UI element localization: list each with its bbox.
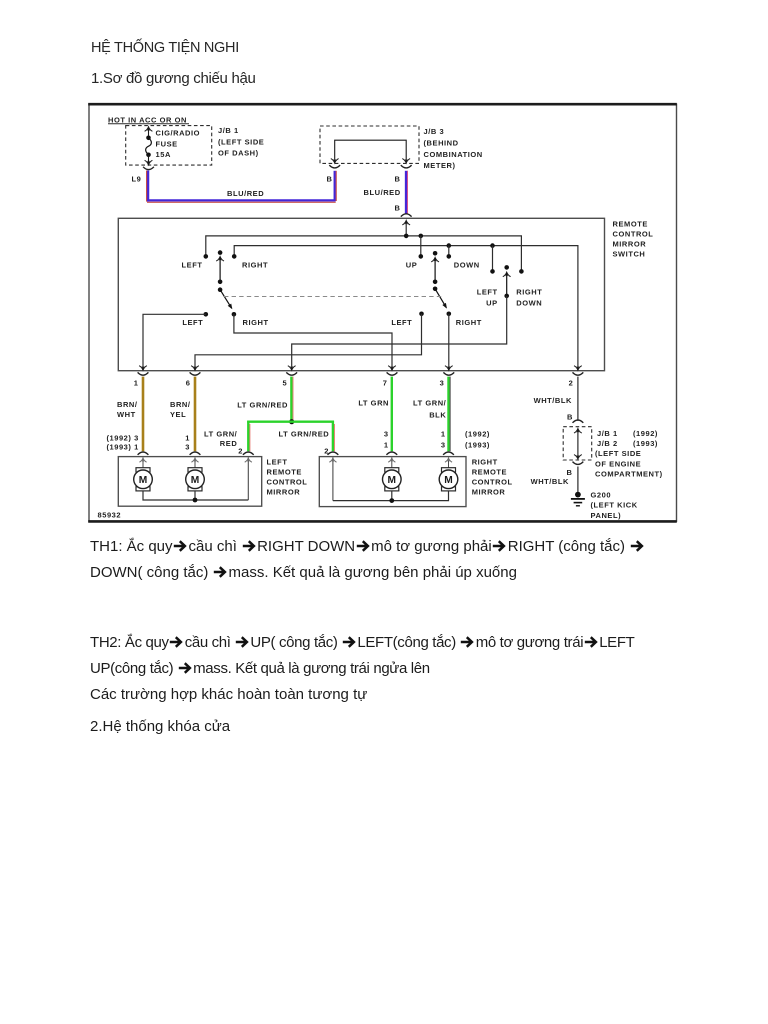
label J/B 1 (1992) / J/B 2 (1993) xyxy=(595,429,663,479)
switch S2 lower contacts xyxy=(419,312,451,317)
svg-text:J/B 2: J/B 2 xyxy=(597,439,618,448)
switch S1 lower deck contacts xyxy=(204,312,237,317)
label LT GRN/BLK xyxy=(413,398,447,419)
node LEFT-UP drop on bus 2 xyxy=(490,243,495,248)
wire B entry into switch xyxy=(402,220,410,236)
svg-text:LT GRN/: LT GRN/ xyxy=(204,430,238,439)
wire from S1 lower RIGHT to pin 7 xyxy=(234,314,392,370)
svg-text:MIRROR: MIRROR xyxy=(613,240,647,249)
label BRN/YEL xyxy=(170,400,191,419)
svg-text:PANEL): PANEL) xyxy=(591,511,622,520)
svg-text:LT GRN/: LT GRN/ xyxy=(413,398,447,407)
wire LT GRN pin7 to right mirror xyxy=(391,377,393,452)
title: HE THONG TIEN NGHI xyxy=(91,40,239,56)
wire WHT/BLK pin2 to J/B xyxy=(577,377,579,421)
svg-text:6: 6 xyxy=(186,379,191,388)
label J/B 3 (BEHIND COMBINATION METER) xyxy=(424,127,483,170)
connector arcs right mirror xyxy=(328,452,454,455)
svg-text:COMBINATION: COMBINATION xyxy=(424,150,483,159)
wires under motors to common bus xyxy=(143,491,248,500)
svg-text:5: 5 xyxy=(282,379,287,388)
svg-text:YEL: YEL xyxy=(170,410,186,419)
svg-text:DOWN: DOWN xyxy=(454,260,480,269)
svg-text:LEFT: LEFT xyxy=(182,260,203,269)
svg-text:J/B 3: J/B 3 xyxy=(424,127,445,136)
node junction LT GRN/RED xyxy=(289,419,294,424)
paragraph TH1 xyxy=(90,534,760,586)
svg-text:7: 7 xyxy=(383,379,388,388)
label 3 / 1 xyxy=(384,430,389,450)
svg-text:(1993): (1993) xyxy=(633,439,658,448)
svg-text:85932: 85932 xyxy=(98,511,122,520)
connector B into J/B engine xyxy=(573,420,584,423)
ground G200 xyxy=(571,492,585,506)
junction block J/B 3 dashed box xyxy=(320,126,419,163)
svg-text:RED: RED xyxy=(220,439,238,448)
svg-text:J/B 1: J/B 1 xyxy=(218,126,239,135)
svg-text:LT GRN/RED: LT GRN/RED xyxy=(279,430,330,439)
switch S3 left-up / right-down xyxy=(490,265,524,298)
wire from S2 lower LEFT to pin 6 xyxy=(195,314,422,370)
wire LEFT-UP drop xyxy=(492,246,494,271)
pin 2 connector xyxy=(573,366,584,376)
svg-text:WHT/BLK: WHT/BLK xyxy=(534,396,572,405)
right remote control mirror box xyxy=(319,457,466,507)
svg-text:(1992): (1992) xyxy=(633,429,658,438)
svg-text:LEFT: LEFT xyxy=(391,318,412,327)
wire LT GRN/RED junction to both mirrors xyxy=(247,421,334,452)
label 1 / 3 xyxy=(441,430,446,450)
node DOWN drop on bus 2 xyxy=(447,243,452,248)
svg-text:WHT: WHT xyxy=(117,410,136,419)
junction block J/B 1 / J/B 2 dashed box (engine compartment) xyxy=(563,427,592,460)
connector B at switch top xyxy=(401,214,412,217)
wire LT GRN/RED pin5 down to junction xyxy=(291,377,293,422)
svg-text:BLK: BLK xyxy=(429,410,446,419)
wire BLU/RED from J/B3 to switch B xyxy=(406,171,408,214)
svg-text:3: 3 xyxy=(185,443,190,452)
fuse CIG/RADIO FUSE 15A xyxy=(145,127,153,165)
svg-text:REMOTE: REMOTE xyxy=(613,220,648,229)
svg-text:(BEHIND: (BEHIND xyxy=(424,138,459,147)
svg-text:REMOTE: REMOTE xyxy=(267,467,302,476)
wire LT GRN/BLK pin3 to right mirror xyxy=(449,377,451,452)
motor M right mirror 1 xyxy=(383,468,402,491)
left remote control mirror box xyxy=(118,457,261,507)
bus wire 1 (top) xyxy=(206,236,522,271)
svg-text:1: 1 xyxy=(134,379,139,388)
label LEFT REMOTE CONTROL MIRROR xyxy=(267,457,308,496)
svg-text:B: B xyxy=(395,174,401,183)
wire DOWN drop xyxy=(448,246,450,256)
svg-text:(LEFT SIDE: (LEFT SIDE xyxy=(595,449,641,458)
svg-text:REMOTE: REMOTE xyxy=(472,468,507,477)
wire WHT/BLK to ground xyxy=(577,467,579,493)
svg-text:RIGHT: RIGHT xyxy=(243,318,269,327)
svg-text:15A: 15A xyxy=(156,150,171,159)
motor M left mirror 2 xyxy=(186,468,205,491)
switch S1 left/right (upper deck) xyxy=(204,250,237,310)
svg-text:DOWN: DOWN xyxy=(516,298,542,307)
pin 5 connector xyxy=(286,366,297,376)
subtitle: 1.So do guong chieu hau xyxy=(91,70,256,87)
node bus left mirror xyxy=(193,498,198,503)
wires under motors to common bus xyxy=(333,491,449,501)
remote control mirror switch box xyxy=(118,218,604,370)
motor M left mirror 1 xyxy=(134,468,153,491)
svg-text:3: 3 xyxy=(440,379,445,388)
paragraph TH2 xyxy=(90,630,768,682)
arrows inside right mirror box xyxy=(329,458,452,501)
svg-text:BRN/: BRN/ xyxy=(117,400,138,409)
J/B 3 internal bus bracket xyxy=(331,140,410,163)
svg-text:RIGHT: RIGHT xyxy=(456,318,482,327)
svg-text:(LEFT KICK: (LEFT KICK xyxy=(591,501,638,510)
svg-text:2: 2 xyxy=(569,379,574,388)
svg-text:WHT/BLK: WHT/BLK xyxy=(531,477,569,486)
svg-text:OF DASH): OF DASH) xyxy=(218,149,259,158)
svg-text:CONTROL: CONTROL xyxy=(267,477,308,486)
svg-text:METER): METER) xyxy=(424,161,456,170)
wire from S1 lower LEFT to pin 1 xyxy=(143,314,206,370)
svg-text:B: B xyxy=(567,413,573,422)
svg-text:1: 1 xyxy=(441,430,446,439)
svg-text:J/B 1: J/B 1 xyxy=(597,429,618,438)
wire from S2 lower RIGHT to pin 3 xyxy=(448,314,450,370)
svg-text:2: 2 xyxy=(238,446,243,455)
svg-text:L9: L9 xyxy=(132,174,142,183)
label (1992) 3 / (1993) 1 xyxy=(106,434,138,452)
svg-text:(1992): (1992) xyxy=(465,430,490,439)
wire BLU/RED from fuse L9 to J/B3 xyxy=(147,171,337,203)
svg-text:LEFT: LEFT xyxy=(477,287,498,296)
fuse value label xyxy=(156,128,201,159)
label J/B 1 (LEFT SIDE OF DASH) xyxy=(218,126,264,158)
label LEFT UP xyxy=(477,287,498,307)
svg-text:BRN/: BRN/ xyxy=(170,400,191,409)
label G200 (LEFT KICK PANEL) xyxy=(591,490,638,519)
J/B internal wire with arrows xyxy=(574,429,582,460)
svg-text:UP: UP xyxy=(486,298,498,307)
svg-text:B: B xyxy=(395,204,401,213)
wire BRN/YEL pin6 to left mirror xyxy=(194,377,197,452)
motor M right mirror 2 xyxy=(439,468,458,491)
connector B at J/B3 left xyxy=(329,165,340,168)
svg-text:RIGHT: RIGHT xyxy=(516,287,542,296)
connector B below J/B xyxy=(573,462,584,465)
node UP drop on bus 1 xyxy=(419,234,424,239)
junction block J/B 1 dashed box (fuse) xyxy=(126,126,212,166)
pin 7 connector xyxy=(387,366,398,376)
svg-text:MIRROR: MIRROR xyxy=(267,487,301,496)
paragraph Cac truong hop xyxy=(90,682,367,707)
wire BRN/WHT pin1 to left mirror xyxy=(142,377,145,452)
connector L9 xyxy=(143,167,154,170)
svg-text:SWITCH: SWITCH xyxy=(613,250,646,259)
svg-text:1: 1 xyxy=(384,441,389,450)
svg-text:LEFT: LEFT xyxy=(267,457,288,466)
svg-text:(1993) 1: (1993) 1 xyxy=(106,443,138,452)
svg-text:CONTROL: CONTROL xyxy=(613,230,654,239)
pin 3 connector xyxy=(443,366,454,376)
label RIGHT REMOTE CONTROL MIRROR xyxy=(472,458,513,497)
wire UP drop xyxy=(420,236,422,256)
svg-text:CONTROL: CONTROL xyxy=(472,478,513,487)
svg-text:(1993): (1993) xyxy=(465,441,490,450)
svg-text:MIRROR: MIRROR xyxy=(472,488,506,497)
svg-text:3: 3 xyxy=(384,430,389,439)
svg-text:G200: G200 xyxy=(591,490,612,499)
svg-text:LT GRN: LT GRN xyxy=(358,398,389,407)
svg-text:(LEFT SIDE: (LEFT SIDE xyxy=(218,137,264,146)
diagram outer border frame xyxy=(88,104,677,521)
svg-text:1: 1 xyxy=(185,434,190,443)
svg-text:HOT IN ACC OR ON: HOT IN ACC OR ON xyxy=(108,115,187,124)
svg-text:COMPARTMENT): COMPARTMENT) xyxy=(595,470,663,479)
node bus right mirror xyxy=(389,498,394,503)
label HOT IN ACC OR ON xyxy=(108,115,189,124)
switch S2 up/down xyxy=(419,251,452,310)
pin 6 connector xyxy=(190,366,201,376)
svg-text:3: 3 xyxy=(441,441,446,450)
svg-text:(1992) 3: (1992) 3 xyxy=(106,434,138,443)
svg-text:RIGHT: RIGHT xyxy=(242,260,268,269)
label (1992) / (1993) xyxy=(465,430,490,450)
paragraph 2.He thong khoa cua xyxy=(90,714,230,739)
mechanical gang dashed link xyxy=(224,296,443,298)
svg-text:RIGHT: RIGHT xyxy=(472,458,498,467)
svg-text:LEFT: LEFT xyxy=(182,318,203,327)
svg-text:LT GRN/RED: LT GRN/RED xyxy=(237,400,288,409)
svg-text:CIG/RADIO: CIG/RADIO xyxy=(156,128,201,137)
connector arcs left mirror xyxy=(138,452,254,455)
svg-text:UP: UP xyxy=(406,260,418,269)
pin 1 connector xyxy=(138,366,149,376)
svg-text:FUSE: FUSE xyxy=(156,139,178,148)
connector B at J/B3 right xyxy=(401,165,412,168)
label RIGHT DOWN xyxy=(516,287,542,307)
label 1 / 3 xyxy=(185,434,190,452)
label REMOTE CONTROL MIRROR SWITCH xyxy=(613,220,654,259)
node at B on bus 1 xyxy=(404,234,409,239)
svg-text:OF ENGINE: OF ENGINE xyxy=(595,459,641,468)
label LT GRN/RED (left branch) xyxy=(204,430,238,448)
svg-text:BLU/RED: BLU/RED xyxy=(364,188,401,197)
label BRN/WHT xyxy=(117,400,138,419)
svg-text:B: B xyxy=(327,174,333,183)
wire from S3 pole to pin 5 xyxy=(292,296,507,370)
bus wire 2 xyxy=(234,246,578,370)
arrows inside left mirror box xyxy=(139,458,252,501)
svg-text:BLU/RED: BLU/RED xyxy=(227,189,264,198)
